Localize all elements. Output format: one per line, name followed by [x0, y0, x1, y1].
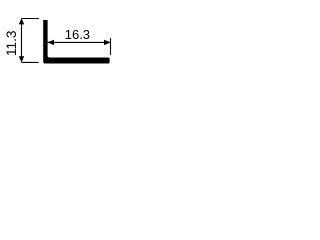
vertical dimension line (11.3) — [21, 19, 23, 63]
bottom extension line — [22, 61, 39, 63]
up arrowhead — [19, 18, 24, 24]
L-angle profile (filled cross-section) — [43, 20, 109, 64]
left arrowhead — [47, 40, 54, 45]
down arrowhead — [19, 56, 24, 62]
background — [0, 0, 120, 85]
svg-text:16.3: 16.3 — [65, 27, 90, 42]
horizontal dimension line (16.3) — [48, 41, 111, 43]
svg-text:11.3: 11.3 — [4, 31, 19, 56]
top extension line — [22, 18, 40, 20]
right arrowhead — [104, 40, 111, 45]
right extension line — [110, 38, 112, 55]
